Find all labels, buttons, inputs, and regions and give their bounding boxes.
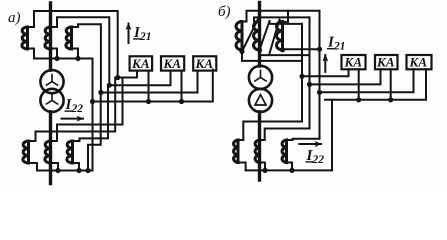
- wire TA3 bottom stub: [72, 49, 79, 59]
- wire hB: V2 to KA5 left terminal: [310, 69, 381, 84]
- bottom star riser wire: [331, 100, 333, 171]
- junction dot: [75, 56, 80, 61]
- wire L2 from h2 down-left to bottom CT TA6: [80, 85, 109, 141]
- junction dot V2/hB: [307, 82, 312, 87]
- stub TA5 top: [51, 140, 58, 142]
- junction dot v2/h3: [98, 90, 103, 95]
- junction dot TA8 bottom: [257, 47, 262, 52]
- KA5 right terminal wire: [390, 69, 392, 100]
- wire TA1 bottom to star common: [28, 49, 35, 59]
- junction dot v1/h4: [90, 99, 95, 104]
- CT TA7 secondary coil (top left, b): [236, 22, 242, 51]
- CT TA11 secondary coil (bottom middle on bus, b): [255, 140, 259, 163]
- label a): [8, 10, 21, 26]
- power transformer T2 bottom winding circle (delta): [249, 89, 272, 112]
- wire TA2 bottom stub: [51, 49, 58, 59]
- junction dot: [76, 168, 81, 173]
- label I22 (diagram b): [306, 148, 325, 166]
- svg-text:21: 21: [139, 31, 152, 43]
- junction dot: [289, 168, 294, 173]
- current arrow I21 (diagram b): [324, 55, 326, 72]
- junction dot w_d leg: [85, 168, 90, 173]
- star symbol in bottom circle: [46, 93, 57, 104]
- delta slash TA8 bottom to node: [260, 21, 270, 50]
- relay KA3 box: [193, 56, 216, 70]
- CT TA12 secondary coil (bottom right, b): [282, 140, 286, 163]
- bottom star common wire (b): [246, 169, 332, 171]
- wire TA8 top to V2 top: [254, 17, 310, 55]
- wire TA6 bottom stub: [73, 163, 80, 171]
- CT TA2 secondary coil (top middle, on bus): [45, 27, 51, 49]
- current arrow I22 (diagram b): [299, 143, 321, 145]
- top star common wire to v1: [34, 59, 93, 102]
- delta slash TA7 bottom to TA8 top: [242, 19, 258, 52]
- bus (primary line, diagram b, upper section): [258, 3, 261, 67]
- wire hC: V3 to KA6 left terminal: [320, 69, 414, 92]
- wire TA2 top to v3: [51, 17, 110, 85]
- current arrow I22 (diagram a): [62, 118, 84, 120]
- vertical V1: [301, 24, 303, 122]
- KA1 right terminal wire: [148, 71, 150, 102]
- junction dot V3/hC: [317, 90, 322, 95]
- star symbol in top circle: [46, 75, 57, 86]
- CT TA3 secondary coil (top right): [66, 27, 72, 49]
- wire TA10 bottom to common: [238, 163, 246, 171]
- stub TA10 top: [238, 139, 243, 141]
- vertical V2: [309, 17, 311, 128]
- wire TA11 bottom stub: [260, 163, 266, 171]
- wire TA3 top to v2: [72, 24, 101, 92]
- bus (primary line, diagram a, lower section): [49, 112, 52, 184]
- star symbol in T2 top circle: [255, 70, 266, 81]
- CT TA9 secondary coil (top right, b): [277, 22, 283, 51]
- label b): [218, 4, 231, 20]
- wire h4 common: v1 junction, relay right terminals: [93, 70, 213, 102]
- svg-text:22: 22: [312, 154, 325, 166]
- bottom star common wire: [37, 170, 93, 172]
- svg-text:КА: КА: [195, 56, 214, 71]
- wire TA9 bottom output to V3: [283, 48, 320, 50]
- svg-text:КА: КА: [163, 56, 182, 71]
- junction dot: [356, 97, 361, 102]
- wire v1 from h4 down to bottom star common: [92, 102, 94, 171]
- wire L3 from h1 down-left to bottom CT TA4: [36, 78, 116, 142]
- stub TA4 top: [29, 140, 36, 142]
- svg-text:КА: КА: [409, 55, 428, 70]
- wire TA1 top to v4: [28, 11, 118, 78]
- wire TA7 bottom output to V1: [242, 52, 302, 61]
- junction dot: [55, 168, 60, 173]
- CT TA8 secondary coil (top middle on bus, b): [254, 22, 260, 51]
- current arrow I21 (diagram a): [128, 24, 130, 44]
- CT TA6 secondary coil (bottom right): [67, 141, 73, 163]
- relay KA4 box: [342, 55, 366, 69]
- KA2 right terminal wire: [181, 71, 183, 102]
- relay KA1 box: [130, 56, 153, 70]
- junction dot: [146, 99, 151, 104]
- vertical V3: [319, 11, 321, 139]
- junction dot V1/hA: [299, 74, 304, 79]
- power transformer T2 top winding circle (star): [249, 66, 272, 89]
- CT TA1 secondary coil (top left): [22, 27, 28, 49]
- junction dot TA9 bottom: [280, 47, 285, 52]
- wire TA9 top stub to top wire: [283, 11, 289, 22]
- junction dot v3/h2: [107, 83, 112, 88]
- KA4 right terminal wire: [358, 69, 360, 100]
- wire w2: V2 bottom to TA11: [265, 129, 310, 140]
- wire L4 from h1 down-left to bottom CT TA5: [57, 78, 123, 142]
- wire TA8 bottom output to V2: [260, 50, 310, 55]
- svg-text:21: 21: [333, 41, 346, 53]
- wire hA: V1 to KA4 left terminal: [302, 69, 349, 76]
- CT TA10 secondary coil (bottom left, b): [234, 140, 238, 163]
- wire w3: V3 bottom to TA12: [293, 138, 320, 141]
- wire h3: v2 junction to KA3 left terminal: [101, 71, 198, 93]
- wire L1 from h3 down to bottom star common: [88, 93, 101, 171]
- CT TA5 secondary coil (bottom middle, on bus): [45, 141, 51, 163]
- junction dot: [262, 168, 267, 173]
- junction dot: [54, 56, 59, 61]
- stub TA11 top: [260, 139, 265, 141]
- wire w1: V1 bottom to TA10: [243, 122, 302, 140]
- relay KA5 box: [375, 55, 398, 69]
- delta slash to TA9 top: [269, 20, 280, 56]
- power transformer T1 bottom winding circle (star): [40, 89, 63, 112]
- junction dot v4/h1: [115, 75, 120, 80]
- junction dot: [388, 97, 393, 102]
- svg-text:22: 22: [71, 103, 84, 115]
- wire TA4 bottom to common: [29, 163, 38, 171]
- wire h1: v4 junction to KA1 left terminal: [118, 71, 137, 78]
- bus (primary line, diagram a, upper section): [49, 3, 52, 70]
- junction dot: [179, 99, 184, 104]
- junction dot V3: [317, 47, 322, 52]
- stub TA12 top: [287, 139, 293, 141]
- delta symbol in T2 bottom circle: [255, 95, 266, 105]
- wire TA5 bottom stub: [51, 163, 59, 171]
- wire h2: v3 junction to KA2 left terminal: [109, 71, 170, 86]
- label I22 (diagram a): [65, 97, 84, 115]
- wire TA12 bottom stub: [287, 163, 293, 171]
- relay KA2 box: [161, 56, 184, 70]
- power transformer T1 top winding circle (star): [40, 70, 63, 93]
- wire hD common (diagram b): [325, 69, 426, 100]
- svg-text:а): а): [8, 10, 21, 26]
- svg-text:б): б): [218, 4, 231, 20]
- relay KA6 box: [407, 55, 432, 69]
- wire slash node to V1 top: [270, 21, 303, 61]
- label I21 (diagram b): [327, 35, 346, 53]
- svg-text:КА: КА: [376, 55, 395, 70]
- wire TA7 top to V3 via top run: [242, 11, 320, 49]
- svg-text:КА: КА: [344, 55, 363, 70]
- svg-text:КА: КА: [131, 56, 150, 71]
- junction dot TA7 bottom: [239, 49, 244, 54]
- bus (primary line, diagram b, lower section): [258, 112, 261, 180]
- CT TA4 secondary coil (bottom left): [23, 141, 29, 163]
- stub TA6 top: [73, 140, 80, 142]
- label I21: [133, 25, 152, 43]
